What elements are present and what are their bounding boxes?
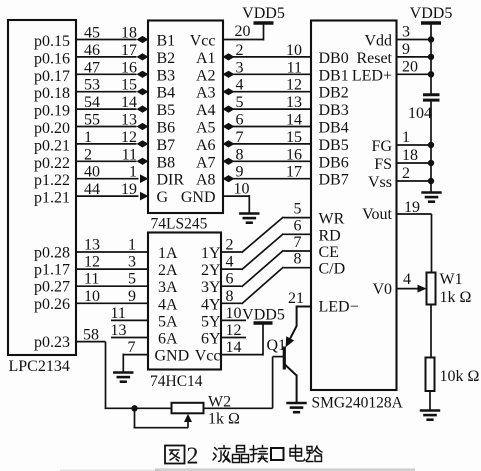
svg-text:7: 7 — [294, 234, 302, 251]
svg-text:3Y: 3Y — [201, 279, 221, 296]
wire LPC2134 p0.20 (pin 55) to 74LS245 B6 (pin 13) — [76, 126, 137, 128]
wire LPC2134 p0.27 (pin 11) to 74HC14 3A (pin 5) — [76, 285, 148, 287]
svg-text:p0.23: p0.23 — [34, 334, 70, 351]
wire 74LS245 A5 (pin 6) to SMG DB4 (pin 14) — [223, 126, 311, 128]
svg-text:LPC2134: LPC2134 — [9, 358, 70, 375]
wire LPC2134 p0.23 pin 58 down to W2 — [76, 341, 106, 343]
svg-text:B1: B1 — [157, 33, 176, 50]
wire SMG FS pin 18 to VDD5 rail — [397, 162, 432, 164]
wire 74HC14 3Y (pin 6) to SMG CE (pin 7) — [221, 285, 242, 287]
svg-text:58: 58 — [83, 327, 99, 344]
svg-text:A1: A1 — [196, 50, 216, 67]
svg-text:p0.16: p0.16 — [34, 50, 70, 67]
wire LPC2134 p0.18 (pin 53) to 74LS245 B4 (pin 15) — [76, 91, 137, 93]
svg-text:p0.19: p0.19 — [34, 103, 70, 120]
svg-text:16: 16 — [121, 59, 137, 76]
junction dot at rail (FS) — [428, 160, 434, 166]
wire 74LS245 A3 (pin 4) to SMG DB2 (pin 12) — [223, 91, 311, 93]
svg-text:1k Ω: 1k Ω — [440, 289, 472, 306]
svg-text:p0.17: p0.17 — [34, 68, 70, 85]
ground (under Q1) — [286, 403, 306, 412]
arrowhead at 74LS245 A6 — [223, 140, 235, 147]
wire SMG Vss pin 2 to VDD5 rail — [397, 180, 432, 182]
wire SMG LED- pin 21 to Q1 emitter — [297, 306, 311, 308]
arrowhead into 74LS245 B2 — [137, 53, 149, 60]
junction dot at rail (Vdd) — [428, 36, 434, 42]
svg-text:2: 2 — [236, 42, 244, 59]
wire SMG LED+ pin 20 to VDD5 rail — [397, 73, 432, 75]
IC U3 LPC2134 body — [8, 20, 76, 355]
arrowhead at 74LS245 A8 — [223, 175, 235, 182]
wiper arrow into W2 (up) — [184, 414, 192, 422]
svg-text:Vdd: Vdd — [364, 33, 392, 50]
arrowhead into 74LS245 B3 — [137, 71, 149, 78]
arrowhead at 74LS245 A3 — [223, 88, 235, 95]
power VDD5 (middle, 74HC14 Vcc) — [254, 321, 273, 324]
power VDD5 (top right rail) — [421, 21, 441, 24]
svg-text:p1.21: p1.21 — [34, 190, 70, 207]
svg-text:C/D: C/D — [319, 261, 346, 278]
wire bottom horizontal to W2 left terminal — [105, 407, 172, 409]
svg-text:Vcc: Vcc — [195, 348, 221, 365]
wire VDD5 rail vertical — [430, 23, 432, 94]
svg-text:54: 54 — [84, 94, 100, 111]
svg-text:GND: GND — [181, 189, 216, 206]
svg-text:p1.22: p1.22 — [34, 172, 70, 189]
svg-text:VDD5: VDD5 — [410, 5, 453, 22]
svg-text:B5: B5 — [157, 102, 176, 119]
svg-text:6A: 6A — [158, 331, 178, 348]
svg-text:A6: A6 — [196, 137, 216, 154]
junction dot at rail (FG) — [428, 142, 434, 148]
svg-text:8: 8 — [294, 251, 302, 268]
svg-text:11: 11 — [122, 146, 137, 163]
svg-text:1A: 1A — [158, 245, 178, 262]
svg-text:B6: B6 — [157, 120, 176, 137]
svg-text:20: 20 — [402, 58, 418, 75]
svg-text:7: 7 — [236, 129, 244, 146]
svg-text:45: 45 — [84, 25, 100, 42]
wire W1 bottom to R1 10k — [430, 305, 432, 358]
svg-text:RD: RD — [319, 227, 341, 244]
wire SMG Vdd pin 3 to VDD5 rail — [397, 39, 432, 41]
junction dot (W2 wiper tap) — [131, 405, 137, 411]
ground (right rail) — [421, 193, 441, 202]
arrowhead into 74LS245 B4 — [137, 88, 149, 95]
potentiometer W2 body — [172, 403, 204, 414]
svg-text:G: G — [157, 189, 169, 206]
wire LPC2134 p0.19 (pin 54) to 74LS245 B5 (pin 14) — [76, 108, 137, 110]
svg-text:10k Ω: 10k Ω — [440, 368, 480, 385]
svg-text:4: 4 — [236, 77, 244, 94]
svg-text:7: 7 — [128, 339, 136, 356]
svg-text:15: 15 — [121, 77, 137, 94]
svg-text:DB2: DB2 — [319, 85, 349, 102]
stub wire 74HC14 6Y pin 12 — [221, 337, 246, 339]
svg-text:16: 16 — [286, 146, 302, 163]
wire 74LS245 A7 (pin 8) to SMG DB6 (pin 16) — [223, 160, 311, 162]
wire W2 right terminal to Q1 base — [204, 407, 273, 409]
power VDD5 (top, 74LS245) — [254, 21, 274, 24]
wire 74HC14 4Y (pin 8) to SMG C/D (pin 8) — [221, 302, 242, 304]
svg-text:8: 8 — [226, 288, 234, 305]
svg-text:DB7: DB7 — [319, 172, 349, 189]
svg-text:8: 8 — [236, 146, 244, 163]
wire LPC2134 p0.17 (pin 47) to 74LS245 B3 (pin 16) — [76, 73, 137, 75]
arrowhead at 74LS245 A7 — [223, 158, 235, 165]
svg-text:47: 47 — [84, 59, 100, 76]
svg-text:B3: B3 — [157, 67, 176, 84]
svg-text:p0.27: p0.27 — [34, 279, 70, 296]
svg-text:11: 11 — [84, 271, 99, 288]
svg-text:1k Ω: 1k Ω — [208, 411, 240, 428]
svg-text:A3: A3 — [196, 85, 216, 102]
svg-text:9: 9 — [402, 41, 410, 58]
svg-text:2: 2 — [84, 146, 92, 163]
svg-text:21: 21 — [288, 290, 304, 307]
svg-text:p0.22: p0.22 — [34, 155, 70, 172]
svg-text:p1.17: p1.17 — [34, 262, 70, 279]
svg-text:9: 9 — [236, 164, 244, 181]
svg-text:44: 44 — [84, 181, 100, 198]
transistor Q1 base bar — [283, 347, 286, 370]
svg-text:4A: 4A — [158, 296, 178, 313]
svg-text:2: 2 — [226, 237, 234, 254]
arrowhead at 74LS245 A1 — [223, 53, 235, 60]
svg-text:Vcc: Vcc — [190, 33, 216, 50]
wire LPC2134 p0.16 (pin 46) to 74LS245 B2 (pin 17) — [76, 56, 137, 58]
IC U2 74HC14 body — [148, 233, 221, 370]
capacitor C1 104 bottom plate — [423, 99, 440, 102]
wire 74LS245 A1 (pin 2) to SMG DB0 (pin 10) — [223, 56, 311, 58]
arrowhead into 74LS245 B8 — [137, 158, 149, 165]
transistor Q1 collector — [285, 365, 297, 376]
svg-text:10: 10 — [234, 181, 250, 198]
svg-text:12: 12 — [226, 322, 242, 339]
svg-text:Reset: Reset — [356, 50, 392, 67]
junction dot at rail (Reset) — [428, 54, 434, 60]
svg-text:14: 14 — [121, 94, 137, 111]
svg-text:74LS245: 74LS245 — [151, 216, 208, 233]
wire junction down and right to W2 wiper — [134, 408, 136, 427]
arrowhead at 74LS245 A5 — [223, 123, 235, 130]
svg-text:2: 2 — [187, 444, 199, 470]
svg-text:3: 3 — [236, 59, 244, 76]
svg-text:6: 6 — [226, 271, 234, 288]
svg-text:3: 3 — [402, 24, 410, 41]
wire 74LS245 A6 (pin 7) to SMG DB5 (pin 15) — [223, 143, 311, 145]
LCD module SMG240128A body — [311, 21, 397, 391]
svg-text:DB6: DB6 — [319, 154, 349, 171]
svg-text:1: 1 — [402, 129, 410, 146]
junction dot at rail (Vss) — [428, 178, 434, 184]
wire 74LS245 GND pin 10 to ground — [223, 195, 249, 197]
wire 74HC14 2Y (pin 4) to SMG RD (pin 6) — [221, 268, 242, 270]
svg-text:10: 10 — [226, 305, 242, 322]
svg-text:3: 3 — [128, 254, 136, 271]
svg-text:DB5: DB5 — [319, 137, 349, 154]
svg-text:13: 13 — [286, 94, 302, 111]
svg-text:VDD5: VDD5 — [242, 307, 285, 324]
svg-text:B4: B4 — [157, 85, 176, 102]
svg-text:A5: A5 — [196, 120, 216, 137]
svg-text:DB4: DB4 — [319, 120, 349, 137]
svg-text:CE: CE — [319, 244, 339, 261]
open arrowhead into 74LS245 G — [140, 192, 149, 201]
svg-text:2A: 2A — [158, 262, 178, 279]
wire 74LS245 Vcc pin 20 to VDD5 — [223, 39, 264, 41]
arrowhead into 74LS245 B6 — [137, 123, 149, 130]
ground (under 74HC14 GND) — [113, 373, 133, 382]
svg-text:40: 40 — [84, 164, 100, 181]
svg-text:SMG240128A: SMG240128A — [312, 395, 404, 412]
wire LPC2134 p1.17 (pin 12) to 74HC14 2A (pin 3) — [76, 268, 148, 270]
wire 74HC14 1Y (pin 2) to SMG WR (pin 5) — [221, 251, 242, 253]
scan artifact smear at bottom edge (decorative) — [155, 468, 415, 471]
svg-text:DB0: DB0 — [319, 50, 349, 67]
svg-text:18: 18 — [121, 25, 137, 42]
wire SMG Reset pin 9 to VDD5 rail — [397, 56, 432, 58]
svg-text:A7: A7 — [196, 154, 216, 171]
svg-text:WR: WR — [319, 211, 345, 228]
wire SMG FG pin 1 to VDD5 rail — [397, 144, 432, 146]
svg-text:LED−: LED− — [319, 299, 359, 316]
svg-text:A4: A4 — [196, 102, 216, 119]
svg-text:B7: B7 — [157, 137, 176, 154]
svg-text:6: 6 — [236, 112, 244, 129]
arrowhead into 74LS245 B5 — [137, 106, 149, 113]
svg-text:5A: 5A — [158, 313, 178, 330]
svg-text:6: 6 — [294, 217, 302, 234]
svg-text:A8: A8 — [196, 172, 216, 189]
svg-text:3A: 3A — [158, 279, 178, 296]
svg-text:p0.20: p0.20 — [34, 120, 70, 137]
resistor R1 10k body — [426, 358, 435, 392]
wire SMG V0 pin 4 to W1 wiper — [397, 288, 420, 290]
IC U1 74LS245 body — [148, 21, 223, 214]
svg-text:15: 15 — [286, 129, 302, 146]
svg-text:9: 9 — [128, 288, 136, 305]
svg-text:5Y: 5Y — [201, 313, 221, 330]
wire LPC2134 p0.15 (pin 45) to 74LS245 B1 (pin 18) — [76, 39, 137, 41]
wire LPC2134 p1.21 (pin 44) to 74LS245 G (pin 19) — [76, 195, 139, 197]
svg-text:13: 13 — [121, 112, 137, 129]
wire rail below capacitor to ground — [430, 102, 432, 193]
capacitor C1 104 top plate — [423, 93, 440, 96]
svg-text:1: 1 — [128, 237, 136, 254]
svg-text:GND: GND — [155, 348, 190, 365]
svg-text:A2: A2 — [196, 67, 216, 84]
wire 74LS245 A2 (pin 3) to SMG DB1 (pin 11) — [223, 73, 311, 75]
svg-text:LED+: LED+ — [352, 67, 392, 84]
caption: figure title 图2 液晶接口电路 (hand-drawn glyphs) — [165, 446, 185, 464]
svg-text:46: 46 — [84, 42, 100, 59]
svg-text:104: 104 — [408, 105, 432, 122]
svg-text:12: 12 — [121, 129, 137, 146]
svg-text:p0.28: p0.28 — [34, 245, 70, 262]
transistor Q1 emitter (arrow into base bar) — [290, 326, 296, 338]
svg-text:5: 5 — [236, 94, 244, 111]
svg-text:10: 10 — [286, 42, 302, 59]
junction dot at rail (LED+) — [428, 71, 434, 77]
svg-text:12: 12 — [84, 254, 100, 271]
svg-text:19: 19 — [121, 181, 137, 198]
wiper arrow into W1 — [418, 285, 427, 293]
svg-text:18: 18 — [402, 147, 418, 164]
svg-text:5: 5 — [128, 271, 136, 288]
svg-text:B8: B8 — [157, 154, 176, 171]
svg-text:55: 55 — [84, 112, 100, 129]
svg-text:2: 2 — [402, 165, 410, 182]
svg-text:53: 53 — [84, 77, 100, 94]
svg-text:Vss: Vss — [368, 174, 392, 191]
wire LPC2134 p0.22 (pin 2) to 74LS245 B8 (pin 11) — [76, 160, 137, 162]
svg-text:13: 13 — [84, 237, 100, 254]
svg-text:FS: FS — [374, 156, 392, 173]
svg-text:17: 17 — [121, 42, 137, 59]
svg-text:13: 13 — [111, 322, 127, 339]
svg-text:11: 11 — [287, 59, 302, 76]
svg-text:6Y: 6Y — [201, 331, 221, 348]
open arrowhead into 74LS245 DIR — [140, 174, 149, 183]
wire LPC2134 p0.21 (pin 1) to 74LS245 B7 (pin 12) — [76, 143, 137, 145]
arrowhead into 74LS245 B1 — [137, 36, 149, 43]
svg-text:4Y: 4Y — [201, 296, 221, 313]
svg-text:12: 12 — [286, 77, 302, 94]
potentiometer W1 body — [427, 273, 436, 305]
stub wire 74HC14 5A pin 11 — [111, 319, 148, 321]
svg-text:W1: W1 — [440, 271, 463, 288]
svg-text:20: 20 — [235, 23, 251, 40]
stub wire 74HC14 5Y pin 10 — [221, 319, 246, 321]
wire LPC2134 p0.28 (pin 13) to 74HC14 1A (pin 1) — [76, 251, 148, 253]
svg-text:DB1: DB1 — [319, 67, 349, 84]
svg-text:1: 1 — [84, 129, 92, 146]
svg-text:DIR: DIR — [157, 172, 185, 189]
svg-text:p0.26: p0.26 — [34, 296, 70, 313]
svg-text:p0.21: p0.21 — [34, 137, 70, 154]
wire LPC2134 p0.26 (pin 10) to 74HC14 4A (pin 9) — [76, 302, 148, 304]
wire SMG Vout pin 19 to W1 — [397, 213, 432, 215]
svg-text:4: 4 — [403, 271, 411, 288]
svg-text:14: 14 — [286, 112, 302, 129]
svg-text:11: 11 — [111, 305, 126, 322]
stub wire 74HC14 6A pin 13 — [111, 337, 148, 339]
wire LPC2134 p1.22 (pin 40) to 74LS245 DIR (pin 1) — [76, 178, 139, 180]
wire 74LS245 A4 (pin 5) to SMG DB3 (pin 13) — [223, 108, 311, 110]
svg-text:14: 14 — [226, 339, 242, 356]
svg-text:FG: FG — [372, 138, 393, 155]
svg-text:p0.15: p0.15 — [34, 33, 70, 50]
svg-text:DB3: DB3 — [319, 102, 349, 119]
wire vertical down from p0.23 — [105, 342, 107, 409]
svg-text:17: 17 — [286, 164, 302, 181]
svg-text:5: 5 — [294, 201, 302, 218]
svg-text:2Y: 2Y — [201, 262, 221, 279]
svg-text:B2: B2 — [157, 50, 176, 67]
svg-text:1Y: 1Y — [201, 245, 221, 262]
svg-text:Vout: Vout — [362, 206, 392, 223]
svg-text:1: 1 — [129, 164, 137, 181]
wire 74HC14 Vcc pin 14 to VDD5 — [221, 354, 263, 356]
svg-text:VDD5: VDD5 — [242, 5, 285, 22]
svg-text:19: 19 — [404, 199, 420, 216]
wire R1 to ground — [429, 391, 431, 411]
ground (under 10k) — [420, 411, 440, 420]
wire 74LS245 A8 (pin 9) to SMG DB7 (pin 17) — [223, 178, 311, 180]
svg-text:74HC14: 74HC14 — [150, 373, 203, 390]
arrowhead at 74LS245 A4 — [223, 106, 235, 113]
ground (under 74LS245 GND) — [239, 214, 259, 223]
svg-text:p0.18: p0.18 — [34, 85, 70, 102]
svg-text:10: 10 — [84, 288, 100, 305]
arrowhead into 74LS245 B7 — [137, 140, 149, 147]
svg-text:V0: V0 — [372, 281, 392, 298]
svg-text:4: 4 — [226, 254, 234, 271]
wire 74HC14 GND pin 7 to ground — [123, 354, 148, 356]
arrowhead at 74LS245 A2 — [223, 71, 235, 78]
